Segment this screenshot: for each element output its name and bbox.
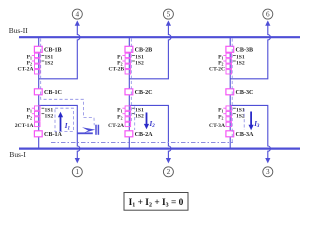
svg-text:CB-1B: CB-1B — [44, 48, 62, 54]
svg-text:1S2: 1S2 — [135, 114, 144, 120]
current transformer CT-2C (top, column 3) — [209, 53, 245, 74]
svg-text:Bus-II: Bus-II — [9, 26, 28, 35]
wire feeder column 1 (vertical through CBs and CTs) — [38, 37, 40, 148]
wire feeder column 3 (vertical through CBs and CTs) — [229, 37, 231, 148]
svg-text:CT-2C: CT-2C — [209, 67, 225, 73]
node 2 (feeder circle) — [163, 167, 173, 177]
circuit breaker CB-1B — [34, 46, 61, 53]
svg-text:3: 3 — [266, 168, 270, 176]
current transformer CT-2A (top, column 1) — [18, 53, 54, 74]
wire tap to differential relay — [77, 132, 93, 134]
wire top link column 2: feeder to incoming line 5 — [129, 25, 171, 79]
svg-text:1S2: 1S2 — [135, 60, 144, 66]
svg-text:1S2: 1S2 — [45, 60, 54, 66]
svg-text:5: 5 — [167, 11, 171, 19]
svg-text:4: 4 — [76, 11, 80, 19]
bus Bus-II — [9, 26, 300, 37]
current transformer 2CT-1A (middle, column 1) — [15, 106, 54, 129]
bus Bus-I — [9, 149, 300, 160]
circuit breaker CB-2A — [125, 131, 153, 138]
svg-text:CB-2A: CB-2A — [135, 132, 154, 138]
arrowhead up to node 4 — [75, 20, 80, 25]
svg-text:CB-2C: CB-2C — [135, 90, 153, 96]
circuit breaker CB-2B — [125, 46, 152, 53]
current arrow I2 — [144, 113, 155, 130]
relay connection arrow (to differential relay) — [82, 127, 95, 133]
dashed CT secondary lead column 2 (top) — [130, 39, 132, 123]
svg-text:CT-2A: CT-2A — [108, 123, 124, 129]
current transformer CT-2A (middle, column 2) — [108, 106, 144, 129]
KCL equation box I1+I2+I3=0 — [124, 193, 188, 211]
arrowhead up to node 5 — [166, 20, 171, 25]
svg-text:CT-2B: CT-2B — [108, 67, 124, 73]
svg-text:1: 1 — [76, 168, 80, 176]
svg-text:1S2: 1S2 — [236, 60, 245, 66]
svg-text:6: 6 — [266, 11, 270, 19]
node 6 (feeder circle) — [263, 9, 273, 19]
dashed CT secondary lead column 1 (top) — [41, 39, 94, 126]
wire top link column 1: feeder to incoming line 4 — [39, 25, 80, 79]
svg-text:CT-3A: CT-3A — [209, 123, 225, 129]
node 1 (feeder circle) — [72, 167, 82, 177]
node 4 (feeder circle) — [72, 9, 82, 19]
wire top link column 3: feeder to incoming line 6 — [230, 25, 270, 79]
svg-text:I1 + I2 + I3 = 0: I1 + I2 + I3 = 0 — [129, 198, 184, 209]
svg-text:1S2: 1S2 — [236, 114, 245, 120]
arrowhead down to node 2 — [166, 158, 171, 163]
current transformer CT-3A (middle, column 3) — [209, 106, 245, 129]
svg-text:CB-3C: CB-3C — [236, 90, 254, 96]
circuit breaker CB-1A — [34, 131, 62, 138]
svg-text:CB-1A: CB-1A — [44, 132, 63, 138]
arrowhead down to node 3 — [265, 158, 270, 163]
svg-text:1S2: 1S2 — [45, 114, 54, 120]
dashed lead beside current I3 — [243, 109, 245, 131]
svg-text:CB-3B: CB-3B — [236, 48, 254, 54]
wire mid link column 1: feeder to outgoing feeder 1 — [39, 105, 80, 158]
wire mid link column 2: feeder to outgoing feeder 2 — [129, 105, 171, 158]
circuit breaker CB-3A — [226, 131, 254, 138]
node 5 (feeder circle) — [163, 9, 173, 19]
circuit breaker CB-2C — [125, 89, 153, 96]
svg-text:2CT-1A: 2CT-1A — [15, 123, 34, 129]
dashed CT secondary lead column 3 (top) — [231, 39, 233, 143]
wire feeder column 2 (vertical through CBs and CTs) — [128, 37, 130, 148]
svg-text:2: 2 — [167, 168, 171, 176]
pilot wire zone boundary (dash-dot) — [51, 142, 233, 144]
node 3 (feeder circle) — [263, 167, 273, 177]
dashed box around current I1 — [55, 108, 73, 131]
dashed lead beside current I2 — [134, 107, 136, 131]
svg-text:CT-2A: CT-2A — [18, 67, 34, 73]
circuit breaker CB-3B — [226, 46, 253, 53]
svg-text:CB-1C: CB-1C — [44, 90, 62, 96]
svg-text:CB-3A: CB-3A — [236, 132, 255, 138]
current transformer CT-2B (top, column 2) — [108, 53, 144, 74]
relay terminal bars — [96, 125, 98, 135]
circuit breaker CB-1C — [34, 89, 62, 96]
current arrow I3 — [249, 112, 260, 131]
wire mid link column 3: feeder to outgoing feeder 3 — [230, 105, 270, 158]
svg-text:CB-2B: CB-2B — [135, 48, 153, 54]
current arrow I1 — [58, 112, 70, 132]
svg-text:Bus-I: Bus-I — [9, 150, 26, 159]
arrowhead down to node 1 — [75, 158, 80, 163]
arrowhead up to node 6 — [265, 20, 270, 25]
circuit breaker CB-3C — [226, 89, 254, 96]
